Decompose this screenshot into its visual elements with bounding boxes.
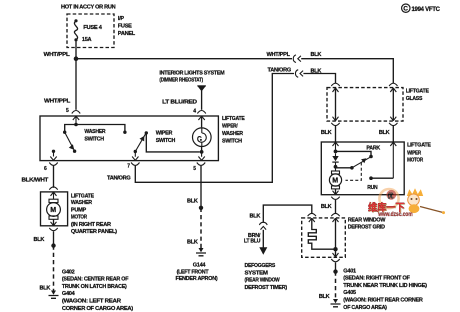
svg-text:(WAGON: LEFT REAR: (WAGON: LEFT REAR [62,299,121,305]
svg-text:BLK: BLK [321,130,332,136]
svg-text:TAN/ORG: TAN/ORG [107,176,131,182]
svg-text:CORNER OF CARGO AREA): CORNER OF CARGO AREA) [62,306,133,312]
pump exit arrow [51,222,57,226]
pump entry arrow [51,192,57,199]
diode (one-way) in motor feed [335,153,337,156]
rear window defrost grid dashed box [302,218,346,257]
svg-text:TRUNK NEAR TRUNK LID HINGE): TRUNK NEAR TRUNK LID HINGE) [343,283,427,289]
mechanical link dashed [346,163,362,181]
svg-text:BLK: BLK [319,294,330,300]
svg-text:REAR WINDOW: REAR WINDOW [348,218,386,224]
wire to defoggers off-page [262,230,264,248]
svg-text:WASHER: WASHER [222,131,243,137]
svg-text:5: 5 [193,166,196,172]
svg-text:SYSTEM: SYSTEM [245,270,269,276]
svg-text:G405: G405 [343,290,356,296]
svg-text:LT BLU: LT BLU [244,238,261,244]
svg-text:FENDER APRON): FENDER APRON) [176,276,218,282]
svg-text:6: 6 [44,166,47,172]
ground G144 [199,248,204,252]
connector inline C200 (WHT/PPL to BLK) [293,55,296,63]
wire BLK right and down to liftgate glass [303,74,335,84]
node G402 splice [51,243,55,247]
svg-text:G404: G404 [62,291,76,297]
svg-text:FUSE 4: FUSE 4 [83,25,103,31]
grid element (defrost grid) [308,218,333,249]
svg-text:1994 VFTC: 1994 VFTC [412,7,441,13]
svg-text:BLK: BLK [34,237,45,243]
svg-text:FUSE: FUSE [118,24,132,30]
connector arc at switch pin 4 (top) [197,111,205,114]
wire glass to wiper motor left [335,126,337,142]
wire LT BLU/RED down to switch pin 4 [201,91,203,110]
svg-text:MOTOR: MOTOR [71,215,87,221]
svg-text:OF CARGO AREA): OF CARGO AREA) [343,305,387,311]
svg-text:TAN/ORG: TAN/ORG [268,68,291,74]
wire motor to box bottom [335,189,337,195]
washer switch right contact [123,131,126,134]
connector arc at switch pin 5 (top) [72,111,80,114]
grid entry arc right [331,213,339,216]
liftgate glass dashed box [327,88,403,122]
svg-text:MOTOR: MOTOR [407,158,423,164]
svg-text:M: M [332,178,338,185]
svg-text:(SEDAN: CENTER REAR OF: (SEDAN: CENTER REAR OF [62,277,129,283]
wire dashed to G144 ground [200,208,202,249]
washer switch left contact [63,131,66,134]
svg-text:SWITCH: SWITCH [222,138,242,144]
svg-text:WIPER/: WIPER/ [222,124,238,130]
svg-text:I/P: I/P [118,16,125,22]
wiper output arrow to pin 7 [132,153,138,161]
lamp output arrow to pin 5 bottom [198,153,204,160]
off-page arrow from interior lights system [197,85,206,87]
svg-text:LIFTGATE: LIFTGATE [406,89,429,95]
wire glass to wiper motor right [392,126,394,142]
connector arc at pin 6 (bottom) [49,163,57,166]
fuse panel dashed box [67,14,114,48]
svg-text:优: 优 [388,192,394,200]
wire washer switch feed bar [65,125,125,132]
node G144 splice [199,206,203,210]
node washer feed junction [74,123,78,127]
park switch PARK contact [369,155,373,159]
svg-text:5: 5 [66,108,69,114]
svg-text:LIFTGATE: LIFTGATE [71,193,94,199]
node park pivot junction [334,165,338,169]
svg-text:PUMP: PUMP [71,207,87,213]
svg-text:WHT/PPL: WHT/PPL [44,99,71,105]
watermark dzsc stamp [379,189,398,208]
svg-text:M: M [50,207,56,214]
svg-text:4: 4 [193,109,196,115]
motor M (liftgate wiper motor) [335,167,337,171]
svg-text:7: 7 [127,164,130,170]
svg-text:WASHER: WASHER [71,200,92,206]
svg-text:BLK: BLK [321,204,332,210]
connector arc at pin 7 (bottom) [131,163,139,166]
washer switch blade [65,132,75,150]
run contact RUN [369,176,373,180]
svg-text:(LEFT FRONT: (LEFT FRONT [177,269,210,275]
svg-text:DEFROST TIMER): DEFROST TIMER) [245,285,288,291]
wire grid to G401 splice [335,262,337,271]
copyright 1994 VFTC [402,4,410,12]
svg-text:15A: 15A [82,37,92,43]
svg-text:BLK: BLK [311,68,322,74]
svg-text:GLASS: GLASS [406,96,423,102]
wire junction to PARK contact [336,151,372,155]
svg-text:G401: G401 [343,268,356,274]
wiper switch contact [145,131,148,134]
svg-text:QUARTER PANEL): QUARTER PANEL) [71,229,117,235]
svg-text:DEFOGGERS: DEFOGGERS [245,263,276,269]
svg-text:C: C [403,6,408,13]
off-page arrow defoggers system [259,247,267,255]
node grid junction [333,247,337,251]
svg-text:PARK: PARK [366,146,380,152]
svg-text:INTERIOR LIGHTS SYSTEM: INTERIOR LIGHTS SYSTEM [159,71,225,77]
svg-text:WASHER: WASHER [84,129,105,135]
wire pin 5 down to ground junction [200,166,202,208]
svg-text:BLK: BLK [250,213,261,219]
svg-text:G402: G402 [62,269,75,275]
wire defoggers branch [263,205,312,223]
wiper motor feed entry arrow (left) [333,142,339,149]
ground G402 [51,291,56,295]
wire RUN contact to right feed [371,177,393,179]
glass pass-through wire left [331,83,339,86]
svg-text:RUN: RUN [367,185,377,191]
wire pin 6 down to washer pump [53,166,55,188]
svg-text:BLK: BLK [187,240,198,246]
node motor feed junction [334,150,338,154]
node lamp output junction [200,150,204,154]
wiper motor run feed entry (right) [390,142,396,178]
wire dashed to G402 ground [53,246,55,291]
fuse FUSE 4 15A [74,19,77,22]
wire TAN/ORG: pin 7 down, right, up to connector [135,74,294,183]
liftgate wiper/washer switch box [40,116,218,161]
svg-text:WIPER: WIPER [407,150,421,156]
node fuse tap junction [74,56,79,61]
lamp (switch illumination) [201,116,203,127]
wire junction to park blade pivot [336,167,352,169]
pin 5 entry arrow inside switch box [73,116,79,124]
wiper switch blade [135,134,145,152]
park switch blade [352,157,370,168]
svg-text:LT BLU/RED: LT BLU/RED [162,100,197,106]
svg-text:WHT/PPL: WHT/PPL [267,52,291,58]
liftgate wiper motor box [321,142,404,195]
svg-text:LIFTGATE: LIFTGATE [407,143,431,149]
svg-text:(REAR WINDOW: (REAR WINDOW [245,277,281,283]
washer output arrow to pin 6 [50,153,56,161]
svg-text:DEFROST GRID: DEFROST GRID [348,225,385,231]
wire dashed to G401 ground [335,272,337,300]
pump entry arc [49,187,57,190]
svg-text:(SEDAN: RIGHT FRONT OF: (SEDAN: RIGHT FRONT OF [343,276,410,282]
svg-text:(IN RIGHT REAR: (IN RIGHT REAR [71,222,111,228]
svg-text:(WAGON: RIGHT REAR CORNER: (WAGON: RIGHT REAR CORNER [343,298,423,304]
wire pump to G402 splice [53,231,55,245]
svg-text:www.dzsc.com: www.dzsc.com [377,212,412,218]
svg-text:(DIMMER RHEOSTAT): (DIMMER RHEOSTAT) [159,77,203,83]
svg-text:TRUNK ON LATCH BRACE): TRUNK ON LATCH BRACE) [62,284,127,290]
svg-text:LIFTGATE: LIFTGATE [222,116,245,122]
wire motor ground down to defrost grid box [335,200,337,214]
svg-text:BLK: BLK [379,130,390,136]
svg-text:BLK: BLK [311,52,322,58]
grid entry arc left [308,213,316,216]
svg-text:WIPER: WIPER [156,131,173,137]
connector inline (defogger, vertical) [259,222,267,225]
wire wiper contact to lamp junction [146,133,199,152]
grid exit arc [331,259,339,262]
motor M (washer pump) [49,199,58,202]
grid pass-through wire [335,218,337,257]
node G401 splice [333,269,337,273]
svg-text:SWITCH: SWITCH [156,138,176,144]
motor ground exit arrow [333,191,339,195]
connector inline (TAN/ORG to BLK) [295,70,298,78]
svg-text:BLK: BLK [40,285,51,291]
ground G401 [333,299,338,303]
wire main WHT/PPL bus to right [78,58,292,60]
connector arc at pin 5 (bottom) [197,163,205,166]
svg-text:BLK/WHT: BLK/WHT [22,178,49,184]
wire fuse output down to switch pin 5 [75,42,77,110]
wire BLK bus continuing right and down to liftgate glass [301,59,393,83]
washer switch output contact [52,150,55,153]
svg-text:G144: G144 [193,263,207,269]
watermark dzsc mascot [407,188,445,214]
svg-text:HOT IN ACCY OR RUN: HOT IN ACCY OR RUN [61,5,116,11]
svg-text:PANEL: PANEL [118,31,136,37]
svg-text:WHT/PPL: WHT/PPL [44,52,71,58]
svg-text:SWITCH: SWITCH [84,137,104,143]
glass pass-through wire right [389,83,397,86]
washer pump motor box [41,192,68,226]
svg-text:BLK: BLK [187,198,198,204]
